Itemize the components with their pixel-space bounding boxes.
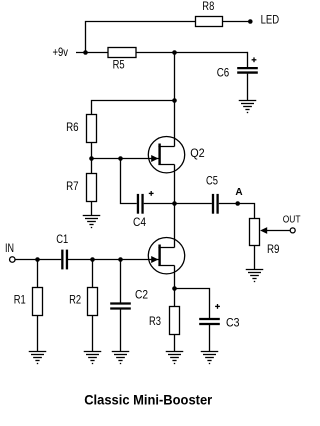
svg-text:R8: R8 [202, 1, 214, 13]
transistor Q2 (JFET) [148, 137, 184, 173]
plus sign of C3 [215, 305, 220, 307]
resistor R9 (volume pot) [250, 219, 260, 246]
svg-text:C3: C3 [226, 318, 240, 330]
capacitor C5 [212, 194, 214, 214]
wire C2 to ground [120, 309, 122, 351]
wire C6 to ground [247, 74, 249, 101]
svg-text:C4: C4 [133, 217, 147, 229]
ground under C6 [239, 100, 257, 102]
terminal OUT (open circle) [290, 228, 295, 233]
svg-text:R9: R9 [267, 244, 280, 256]
node R1 tap junction [35, 257, 40, 262]
capacitor C4 [137, 194, 139, 214]
svg-text:Q2: Q2 [190, 148, 205, 160]
wire R8 output to LED node [223, 21, 251, 23]
svg-text:R3: R3 [149, 316, 161, 328]
wire R2 to ground [92, 315, 94, 351]
ground under C2 [112, 351, 130, 353]
wire bus Q1 source to R3 [174, 266, 176, 307]
svg-text:R5: R5 [113, 60, 125, 72]
wire node A to R9 top [238, 204, 255, 219]
node +9v rail / drain bus junction [172, 50, 177, 55]
wire R3 to ground [174, 334, 176, 351]
wiper arrow of R9 [260, 227, 267, 234]
wire bus Q2 source to Q1 drain [174, 165, 176, 248]
ground under R2 [84, 351, 102, 353]
node R6 row / bus junction [172, 98, 177, 103]
wire R6 feed row [92, 101, 175, 115]
wire input row IN to C1 [15, 259, 61, 261]
ground under R9 [246, 269, 264, 271]
wire R1 to ground [37, 315, 39, 351]
wire drain bus from +9v rail to Q2 drain [174, 53, 176, 147]
wire Q2 gate row [92, 158, 159, 160]
svg-text:R1: R1 [14, 295, 26, 307]
wire C2 riser [120, 260, 122, 303]
capacitor C2 [110, 302, 131, 304]
svg-text:R6: R6 [66, 122, 79, 134]
resistor R5 [108, 48, 136, 58]
wire R6 to R7 link [91, 142, 93, 174]
wire Q1 source to C3 branch [175, 289, 210, 319]
wire +9v lead into R5 [76, 52, 108, 54]
ground under R7 [83, 215, 101, 217]
ground under C3 [201, 351, 219, 353]
wire C4 right lead to bus [144, 203, 175, 205]
wire R2 riser [92, 260, 94, 288]
wire R1 riser [37, 260, 39, 288]
ground under R3 [166, 351, 184, 353]
resistor R1 [33, 288, 43, 316]
node Q1 source junction [172, 286, 177, 291]
wire R9 wiper to OUT [266, 230, 290, 232]
resistor R3 [170, 307, 180, 335]
transistor Q1 (JFET) [148, 238, 184, 274]
capacitor C1 [61, 250, 63, 270]
node C4 tap on Q2 gate row [118, 156, 123, 161]
ground under R1 [29, 351, 47, 353]
wire C4 riser and left lead [121, 159, 137, 204]
svg-text:LED: LED [261, 15, 280, 27]
svg-text:C5: C5 [206, 176, 218, 188]
svg-text:IN: IN [5, 243, 14, 255]
plus sign of C6 [252, 59, 257, 61]
svg-text:R7: R7 [66, 181, 79, 193]
node LED connection dot [248, 19, 253, 24]
resistor R6 [87, 115, 97, 143]
node R6/R7 divider junction [89, 156, 94, 161]
wire C3 to ground [209, 325, 211, 352]
wire C6 riser [247, 52, 249, 67]
node C2 tap junction [118, 257, 123, 262]
wire R7 to ground [91, 201, 93, 215]
svg-text:C2: C2 [135, 290, 148, 302]
svg-text:R2: R2 [69, 295, 81, 307]
node +9v junction [83, 50, 88, 55]
svg-text:A: A [235, 187, 242, 198]
terminal IN (open circle) [10, 257, 16, 263]
svg-text:Classic Mini-Booster: Classic Mini-Booster [84, 391, 213, 407]
resistor R8 [196, 17, 223, 27]
capacitor C6 [237, 67, 258, 69]
wire C5 right lead to node A [219, 203, 238, 205]
node A junction dot [235, 201, 240, 206]
resistor R2 [88, 288, 98, 316]
wire +9v rail from R5 to C6 branch [136, 52, 248, 54]
wire R9 to ground [254, 245, 256, 269]
svg-text:C1: C1 [56, 234, 68, 246]
node C4/C5 bus junction [172, 201, 177, 206]
svg-text:+9v: +9v [53, 47, 69, 59]
wire C5 left lead [175, 203, 212, 205]
node R2 tap junction [90, 257, 95, 262]
wire top rail from +9v node up and right to R8 [86, 22, 196, 53]
capacitor C3 [199, 318, 220, 320]
wire input row C1 to Q1 gate [68, 259, 159, 261]
plus sign of C4 [149, 192, 154, 194]
resistor R7 [87, 174, 97, 202]
svg-text:C6: C6 [217, 68, 230, 80]
svg-text:OUT: OUT [283, 213, 301, 225]
